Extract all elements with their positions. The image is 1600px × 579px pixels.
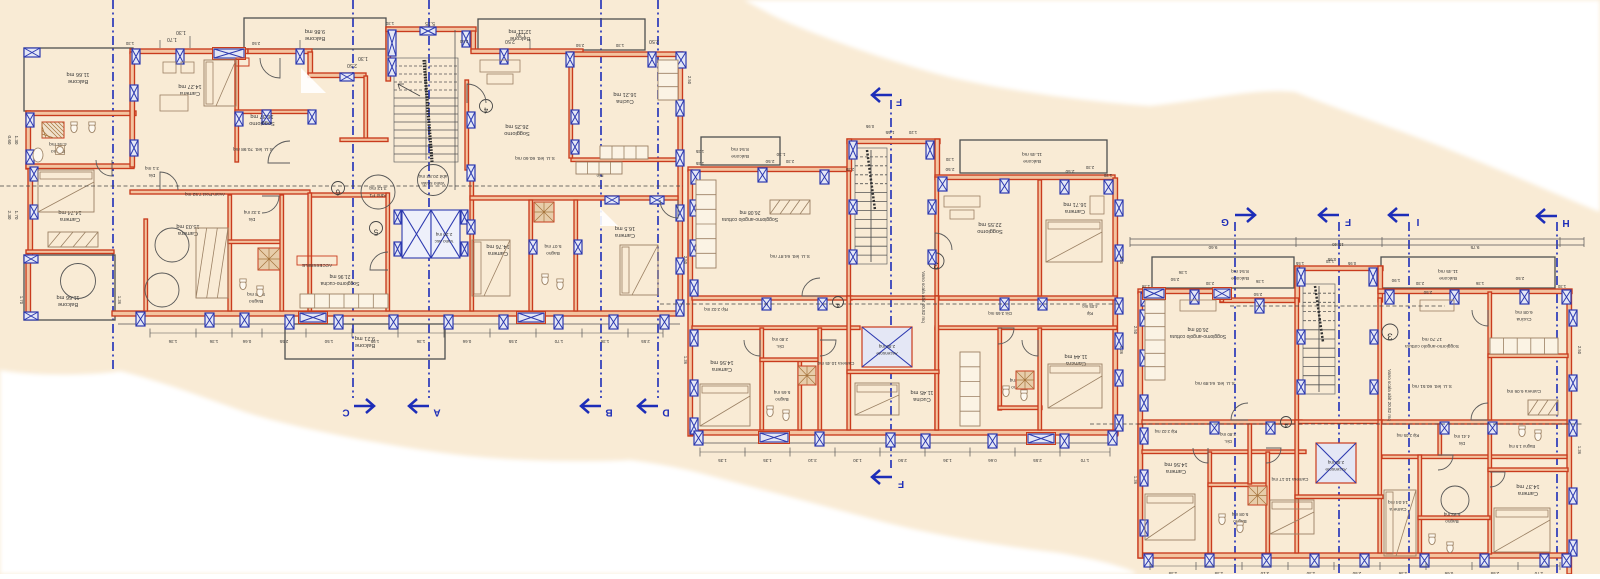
block2 wall corridor y326 right bbox=[935, 326, 1117, 330]
room camera 14.74 bbox=[58, 209, 81, 222]
svg-text:H: H bbox=[1562, 217, 1569, 228]
svg-text:2.20 mq: 2.20 mq bbox=[435, 232, 452, 237]
svg-text:6: 6 bbox=[336, 188, 340, 197]
svg-text:Camera: Camera bbox=[177, 230, 198, 236]
room soggiorno 16.37 bbox=[249, 113, 275, 126]
svg-text:2.30: 2.30 bbox=[785, 159, 794, 164]
furn b2 camera1456 bed bbox=[700, 384, 750, 426]
block2 extra dimension texts bbox=[695, 124, 1094, 170]
svg-text:1.30: 1.30 bbox=[125, 41, 134, 46]
block1 wall kitchen west x571 bbox=[569, 52, 573, 158]
block1 wall soggiorno x467 upper bbox=[465, 80, 469, 170]
svg-text:1.70: 1.70 bbox=[554, 339, 563, 344]
room camera 14.27 bbox=[178, 83, 201, 96]
svg-text:5.07 mq: 5.07 mq bbox=[544, 244, 561, 249]
block2 bottom wall bbox=[690, 430, 1118, 435]
block2 stair core west lower bbox=[847, 171, 851, 297]
block2 misc dimension texts bbox=[683, 161, 1124, 365]
room b3 camera 960 bbox=[1506, 389, 1541, 394]
svg-text:S.U. lett. 70.98 mq: S.U. lett. 70.98 mq bbox=[233, 146, 273, 152]
block3 wall bagno508 y485 bbox=[1208, 483, 1268, 487]
svg-text:14.37 mq: 14.37 mq bbox=[1516, 483, 1539, 489]
svg-text:9.60: 9.60 bbox=[1208, 245, 1217, 250]
svg-text:21.96 mq: 21.96 mq bbox=[329, 273, 350, 279]
block3 wall x1210 lower bbox=[1208, 452, 1212, 553]
svg-text:0.95: 0.95 bbox=[865, 124, 874, 129]
block1 circle 5 bbox=[370, 222, 383, 237]
svg-text:14.56 mq: 14.56 mq bbox=[710, 359, 733, 365]
room b3 bagno small bbox=[1508, 444, 1535, 449]
svg-text:Camera: Camera bbox=[1517, 490, 1538, 496]
svg-text:17.70 mq: 17.70 mq bbox=[1422, 336, 1442, 342]
svg-text:2.50: 2.50 bbox=[687, 76, 692, 85]
block1 wall x282 lower bbox=[280, 195, 284, 311]
svg-text:2.50: 2.50 bbox=[1253, 292, 1262, 297]
svg-text:1.50: 1.50 bbox=[324, 339, 333, 344]
block3 bottom piers bbox=[1144, 554, 1571, 567]
svg-text:F: F bbox=[1345, 216, 1351, 227]
svg-text:1.20: 1.20 bbox=[908, 130, 917, 135]
block1 bottom wall bbox=[112, 311, 683, 316]
block3 stair core west lower bbox=[1295, 298, 1299, 424]
block2 top dimension texts bbox=[765, 130, 1074, 174]
svg-text:abit 20.82 mq: abit 20.82 mq bbox=[418, 173, 447, 179]
svg-text:6.32 mq: 6.32 mq bbox=[1443, 512, 1460, 517]
room b3 camera bl bbox=[1388, 499, 1408, 512]
svg-text:14.04 mq: 14.04 mq bbox=[1388, 499, 1408, 505]
block2 wall x935 lower bbox=[935, 328, 939, 430]
room sogg cucina 21.96 bbox=[320, 273, 359, 286]
svg-text:2.50: 2.50 bbox=[575, 43, 584, 48]
block3 wall x1490 upper bbox=[1488, 292, 1492, 420]
block2 horizontal section trace bbox=[660, 303, 1120, 305]
room camera 16.5 bbox=[614, 225, 635, 238]
block2 wall piers bbox=[690, 141, 1123, 434]
furn b3 bagno508 bbox=[1219, 486, 1267, 533]
block1 wall y195 mid bbox=[310, 193, 388, 197]
block1 bath north wall bbox=[26, 111, 136, 116]
room bagno 5.08 bbox=[247, 291, 265, 304]
svg-text:2.50: 2.50 bbox=[649, 38, 659, 44]
furn bagno508 bbox=[240, 248, 280, 297]
door b3 right sogg bbox=[1471, 403, 1488, 420]
block2 wall bagno466 y408 bbox=[998, 406, 1042, 410]
door b2 dis right bbox=[998, 328, 1014, 344]
svg-text:2.30: 2.30 bbox=[845, 167, 854, 172]
block2 balcony top-right outline bbox=[960, 140, 1107, 173]
room camera 15.03 bbox=[176, 223, 199, 236]
room b2 bagno 565 bbox=[773, 390, 790, 402]
svg-text:Camera: Camera bbox=[1065, 360, 1086, 366]
svg-text:3.32 mq: 3.32 mq bbox=[243, 210, 260, 215]
block3 wall corridor y450 left bbox=[1142, 450, 1306, 454]
white region bottom-left bbox=[0, 370, 1135, 574]
svg-text:1.70: 1.70 bbox=[14, 211, 19, 220]
block1 top dimension texts bbox=[167, 20, 659, 68]
block1 stair circle vano scala bbox=[418, 165, 449, 196]
block2 top wall left bbox=[688, 167, 851, 172]
block3 dimension texts bbox=[1170, 257, 1524, 297]
svg-text:Bagno: Bagno bbox=[775, 397, 789, 402]
block2 landing walls bbox=[847, 296, 939, 430]
svg-text:2.80 mq: 2.80 mq bbox=[1327, 460, 1344, 465]
svg-text:1.70: 1.70 bbox=[1080, 458, 1089, 463]
block1 wall x576 lower bbox=[574, 200, 578, 311]
svg-text:2.50: 2.50 bbox=[1133, 326, 1138, 335]
block1 wall bagno dis y243 bbox=[228, 240, 282, 244]
furn b3 camera1017 bed bbox=[1270, 500, 1314, 534]
svg-text:1.36: 1.36 bbox=[416, 339, 425, 344]
block3 wall corridor y420 right bbox=[1382, 420, 1567, 424]
svg-text:2.50: 2.50 bbox=[765, 159, 774, 164]
svg-text:Soggiorno-cucina: Soggiorno-cucina bbox=[320, 280, 359, 286]
block3 stair west wall bbox=[1295, 266, 1300, 302]
section line I bbox=[1389, 208, 1419, 574]
block3 balcony top-left outline bbox=[1152, 257, 1294, 288]
block3 stairs bbox=[1303, 284, 1335, 394]
block2 elevator bbox=[862, 327, 912, 367]
block2 wall corridor y326 left bbox=[692, 326, 860, 330]
block3 misc dimension texts bbox=[1133, 261, 1582, 485]
svg-text:Rip 2.02 mq: Rip 2.02 mq bbox=[1154, 429, 1177, 434]
section line G bbox=[1221, 208, 1255, 574]
furn b3 small bagno fixtures bbox=[1519, 426, 1541, 441]
svg-text:0.66: 0.66 bbox=[242, 339, 251, 344]
block1 bottom wide pier bbox=[299, 312, 546, 324]
svg-text:2.30: 2.30 bbox=[1085, 165, 1094, 170]
svg-text:1.35: 1.35 bbox=[763, 458, 772, 463]
svg-text:2.50: 2.50 bbox=[505, 38, 515, 44]
room b3 camera 1437 bbox=[1516, 483, 1539, 496]
svg-text:2.80 mq: 2.80 mq bbox=[772, 337, 788, 342]
svg-text:Atrio P1: Atrio P1 bbox=[369, 192, 386, 198]
svg-text:Vano scala abit 20.82 mq: Vano scala abit 20.82 mq bbox=[921, 271, 926, 323]
block3 top wall left bbox=[1138, 289, 1222, 294]
svg-text:Camera: Camera bbox=[711, 366, 732, 372]
furn bagno507 bbox=[534, 202, 563, 290]
block3 circle 4 bbox=[1281, 417, 1292, 429]
svg-text:1.36: 1.36 bbox=[1119, 346, 1124, 355]
svg-text:Dis: Dis bbox=[148, 173, 155, 178]
svg-text:26.08 mq: 26.08 mq bbox=[1187, 326, 1208, 332]
block1 circle 6 bbox=[332, 182, 345, 197]
room b2 su lett 6487 bbox=[770, 253, 810, 259]
svg-text:1.36: 1.36 bbox=[1255, 279, 1264, 284]
block1 left dimension texts bbox=[7, 136, 19, 220]
block1 wall piers bbox=[24, 27, 686, 320]
block2 bottom wide piers bbox=[759, 432, 1056, 445]
svg-text:ACCESSIBILE: ACCESSIBILE bbox=[302, 263, 332, 268]
block1 stair side line bbox=[454, 30, 456, 190]
svg-text:S.U. lett. 60.60 mq: S.U. lett. 60.60 mq bbox=[515, 155, 555, 161]
svg-text:3.1 mq: 3.1 mq bbox=[145, 166, 159, 171]
door b3 camera1017 bbox=[1266, 448, 1281, 463]
block3 elevator bbox=[1316, 443, 1356, 483]
section line F block2 bbox=[872, 88, 904, 489]
door arc camera165 bbox=[660, 200, 678, 218]
svg-text:1.36: 1.36 bbox=[1577, 446, 1582, 455]
svg-text:Vano asc: Vano asc bbox=[434, 239, 454, 244]
block3 wall x1268 lower bbox=[1266, 452, 1270, 553]
block3 wall piers bbox=[1140, 268, 1577, 556]
svg-text:Dis.: Dis. bbox=[776, 344, 784, 349]
svg-text:2.50: 2.50 bbox=[1065, 169, 1074, 174]
svg-text:Balcone: Balcone bbox=[305, 35, 325, 41]
section line B bbox=[581, 0, 613, 418]
block2 stair east wall bbox=[935, 139, 940, 177]
white region top-right bbox=[744, 0, 1600, 212]
svg-text:Balcone: Balcone bbox=[1439, 275, 1457, 281]
svg-text:4: 4 bbox=[836, 302, 840, 309]
svg-text:1.35: 1.35 bbox=[695, 149, 704, 154]
room bagno 5.07 bbox=[544, 244, 561, 256]
furn camera1476 bed bbox=[472, 240, 510, 296]
block1 elevator cell 2 bbox=[431, 210, 460, 258]
block1 wide pier top bbox=[213, 48, 250, 67]
svg-text:1.36: 1.36 bbox=[1141, 284, 1150, 289]
svg-text:2.50: 2.50 bbox=[1515, 276, 1524, 281]
door b2 camera1456 bbox=[744, 340, 760, 356]
block1 stair up arrow bbox=[398, 84, 420, 96]
block1 wall x230 lower bbox=[228, 195, 232, 311]
block1 wall y190 hall bbox=[130, 190, 310, 194]
block1 top wall right of stair bbox=[471, 49, 583, 54]
svg-text:Cucina: Cucina bbox=[615, 98, 633, 104]
svg-text:2.50: 2.50 bbox=[683, 256, 688, 265]
room b2 rip 202 bbox=[704, 307, 728, 312]
svg-text:F: F bbox=[896, 96, 902, 107]
svg-text:2.50: 2.50 bbox=[1170, 277, 1179, 282]
svg-text:Rip: Rip bbox=[1086, 311, 1093, 316]
furn b2 hatch closet bbox=[770, 200, 810, 214]
svg-text:16.37 mq: 16.37 mq bbox=[250, 113, 273, 119]
room soggiorno 26.25 bbox=[504, 123, 530, 136]
furn bed camera1427 bbox=[160, 60, 236, 111]
svg-text:11.44 mq: 11.44 mq bbox=[1065, 353, 1088, 359]
svg-text:1.36: 1.36 bbox=[117, 296, 122, 305]
block1 top wall kitchen bbox=[571, 52, 683, 57]
svg-text:Vano scala abit 20.82 mq: Vano scala abit 20.82 mq bbox=[1387, 369, 1392, 421]
block1 circle atrio bbox=[361, 175, 395, 209]
block3 stair core east lower bbox=[1378, 298, 1382, 424]
svg-text:2.55: 2.55 bbox=[641, 339, 650, 344]
svg-text:Bagno 1.5 mq: Bagno 1.5 mq bbox=[1508, 444, 1535, 449]
svg-text:Vano scala: Vano scala bbox=[421, 180, 445, 186]
furn bath fixtures bbox=[33, 122, 95, 162]
furn b2 cucina counters bbox=[960, 352, 980, 426]
svg-text:22.55 mq: 22.55 mq bbox=[978, 221, 1001, 227]
block1 extra dimension texts bbox=[19, 21, 692, 305]
block1 balcony top-right outline bbox=[244, 18, 386, 49]
svg-text:C: C bbox=[342, 407, 349, 418]
block1 stair cut hatch bbox=[424, 60, 432, 162]
door b3 camera1437 bbox=[1490, 472, 1505, 487]
svg-text:9.86 mq: 9.86 mq bbox=[305, 28, 325, 34]
section line H bbox=[1537, 209, 1570, 574]
block3 step wall x1222 bbox=[1220, 289, 1224, 302]
svg-text:4.05 mq: 4.05 mq bbox=[1082, 304, 1098, 309]
block1 west wall mid bbox=[28, 167, 33, 257]
svg-text:11.66 mq: 11.66 mq bbox=[67, 71, 90, 77]
svg-text:11.45 mq: 11.45 mq bbox=[911, 389, 934, 395]
room b2 dis 365 bbox=[988, 311, 1012, 316]
block1 wall balcone-room x132 bbox=[130, 52, 135, 167]
svg-text:Balcone: Balcone bbox=[1023, 158, 1041, 164]
block3 bottom wall bbox=[1140, 553, 1570, 558]
block1 stair east wall bbox=[471, 31, 476, 51]
svg-text:Balcone: Balcone bbox=[58, 301, 78, 307]
room b2 cucina 1145 bbox=[911, 389, 934, 402]
furn b3 sofa left bbox=[1180, 300, 1216, 311]
block1 wall x146 lower bbox=[144, 219, 148, 311]
svg-text:Camera 10.17 mq: Camera 10.17 mq bbox=[1271, 477, 1308, 482]
block1 bottom wall piers bbox=[136, 312, 669, 329]
room b3 dis 280 bbox=[1220, 432, 1236, 444]
svg-text:1.30: 1.30 bbox=[176, 29, 186, 35]
door b2 soggiorno door bbox=[935, 233, 952, 250]
block2 stair west wall bbox=[847, 139, 852, 171]
door arc sogg cucina bbox=[370, 252, 388, 270]
svg-text:2.50: 2.50 bbox=[1423, 290, 1432, 295]
svg-text:Camera: Camera bbox=[1389, 506, 1406, 512]
block1 top wall mid bbox=[248, 49, 312, 54]
svg-text:5.08 mq: 5.08 mq bbox=[1231, 512, 1248, 517]
block3 wall camera y505 bbox=[1418, 516, 1490, 520]
block2 wall corridor y296 left bbox=[692, 296, 852, 300]
svg-text:1.70: 1.70 bbox=[167, 36, 177, 42]
room avam post bbox=[185, 192, 225, 197]
block1 wall x388 elevator bbox=[386, 193, 390, 311]
block1 horizontal section trace bbox=[0, 185, 683, 187]
svg-text:1.36: 1.36 bbox=[209, 339, 218, 344]
furn b2 bagno466 bbox=[1003, 371, 1034, 401]
block2 bottom wall inner bbox=[694, 442, 1116, 444]
svg-text:1.36: 1.36 bbox=[600, 339, 609, 344]
svg-text:2.50: 2.50 bbox=[898, 458, 907, 463]
svg-text:Rip 2.02 mq: Rip 2.02 mq bbox=[704, 307, 728, 312]
room b2 sogg angolo cottura bbox=[722, 209, 778, 222]
svg-text:1.35: 1.35 bbox=[718, 458, 727, 463]
door arc sogg2625 bbox=[467, 84, 486, 103]
dimension line above block3 bbox=[1130, 237, 1584, 250]
furn sogg sofa bbox=[480, 60, 520, 84]
door b3 left sogg bbox=[1231, 403, 1248, 420]
svg-text:Dis 3.65 mq: Dis 3.65 mq bbox=[988, 311, 1012, 316]
svg-text:1.95: 1.95 bbox=[370, 339, 379, 344]
svg-text:14.27 mq: 14.27 mq bbox=[178, 83, 201, 89]
furn b2 sogg sofa bbox=[944, 196, 980, 219]
svg-text:Ascensore: Ascensore bbox=[1325, 467, 1347, 472]
svg-text:B: B bbox=[605, 407, 612, 418]
room camera 14.76 bbox=[486, 243, 509, 256]
svg-text:5: 5 bbox=[373, 228, 378, 237]
furn b3 bagno632 bbox=[1429, 486, 1469, 553]
block2 circle 3 bbox=[928, 253, 944, 271]
block3 circle 3 bbox=[1382, 324, 1398, 342]
svg-text:1.30: 1.30 bbox=[776, 152, 785, 157]
block2 bottom piers bbox=[694, 431, 1117, 448]
block3 vano scala text bbox=[1387, 369, 1392, 421]
svg-text:0.66: 0.66 bbox=[988, 458, 997, 463]
block2 east wall bbox=[1113, 178, 1118, 436]
door arc balcone bl bbox=[96, 160, 112, 176]
door b3 camera1456 bbox=[1193, 448, 1208, 463]
block2 top wall right bbox=[935, 175, 1115, 180]
svg-text:4.41 mq: 4.41 mq bbox=[1454, 434, 1470, 439]
furn camera1503 bed bbox=[196, 228, 228, 298]
svg-text:4: 4 bbox=[483, 106, 488, 115]
room b3 dis 441 bbox=[1454, 434, 1470, 446]
block2 wall x1040 upper bbox=[1038, 180, 1042, 296]
svg-text:1.36: 1.36 bbox=[1178, 270, 1187, 275]
furn kitchen counters b1 bbox=[300, 294, 388, 308]
svg-text:1.36: 1.36 bbox=[168, 339, 177, 344]
furn b3 camera bl bed bbox=[1384, 490, 1416, 556]
section line no-label x113 bbox=[112, 0, 114, 372]
room rip 4.42 bbox=[591, 166, 608, 178]
block1 terrace outline bbox=[285, 324, 445, 359]
svg-text:9.75: 9.75 bbox=[1470, 245, 1479, 250]
svg-text:Dis.: Dis. bbox=[1224, 439, 1232, 444]
room b2 camera 1144 bbox=[1065, 353, 1088, 366]
block1 elevator piers bbox=[394, 210, 468, 256]
room b3 su lett 6051 bbox=[1412, 383, 1452, 389]
block3 landing walls bbox=[1295, 420, 1383, 553]
svg-text:1.30: 1.30 bbox=[14, 136, 19, 145]
svg-text:Soggiorno-angolo cottura: Soggiorno-angolo cottura bbox=[1405, 343, 1459, 349]
svg-text:14.56 mq: 14.56 mq bbox=[1164, 461, 1187, 467]
room b2 dis 280 bbox=[772, 337, 788, 349]
svg-text:2.30: 2.30 bbox=[1205, 281, 1214, 286]
svg-text:Soggiorno: Soggiorno bbox=[977, 228, 1003, 234]
block1 stairs bbox=[394, 58, 458, 162]
svg-text:2.50: 2.50 bbox=[1119, 256, 1124, 265]
svg-text:Dis: Dis bbox=[248, 217, 255, 222]
room cucina 16.21 bbox=[613, 91, 636, 104]
svg-text:15.40: 15.40 bbox=[1332, 242, 1344, 247]
block2 balcony top-left outline bbox=[701, 137, 780, 165]
furn b3 sofa right bbox=[1420, 300, 1454, 311]
svg-text:11.45 mq: 11.45 mq bbox=[1438, 268, 1458, 274]
furn b2 bagno565 bbox=[767, 366, 816, 421]
svg-text:1.30: 1.30 bbox=[853, 458, 862, 463]
svg-text:16.71 mq: 16.71 mq bbox=[1063, 201, 1086, 207]
furn camera165 bed bbox=[620, 245, 658, 295]
door b2 camera1045 bbox=[820, 340, 836, 356]
block1 step wall bbox=[308, 52, 366, 78]
svg-text:Cucina: Cucina bbox=[1516, 316, 1531, 322]
room b3 su lett 6489 bbox=[1195, 380, 1235, 386]
block3 wall bagno y470 right bbox=[1488, 468, 1568, 472]
svg-text:2.50: 2.50 bbox=[347, 62, 357, 68]
block1 balcony 12.11 outline bbox=[478, 19, 645, 50]
svg-text:1.30: 1.30 bbox=[358, 55, 368, 61]
block1 wall x531 lower bbox=[529, 200, 533, 311]
door arc dis332 bbox=[262, 196, 279, 213]
svg-text:A: A bbox=[433, 407, 440, 418]
block3 upper dashed line bbox=[1230, 305, 1445, 307]
door arc hall bbox=[160, 172, 178, 190]
room dis 3.32 bbox=[243, 210, 260, 222]
block1 balcony bottom-left outline bbox=[24, 255, 115, 320]
room su lett 70.98 bbox=[233, 146, 273, 152]
door b3 upper right bbox=[1472, 310, 1488, 326]
svg-text:4: 4 bbox=[1284, 422, 1288, 429]
svg-text:1.30: 1.30 bbox=[615, 43, 624, 48]
block3 wall corridor y455 right bbox=[1382, 455, 1567, 459]
room b2 camera 1456 bbox=[710, 359, 733, 372]
furn b3 camera1456 bed bbox=[1145, 494, 1195, 540]
